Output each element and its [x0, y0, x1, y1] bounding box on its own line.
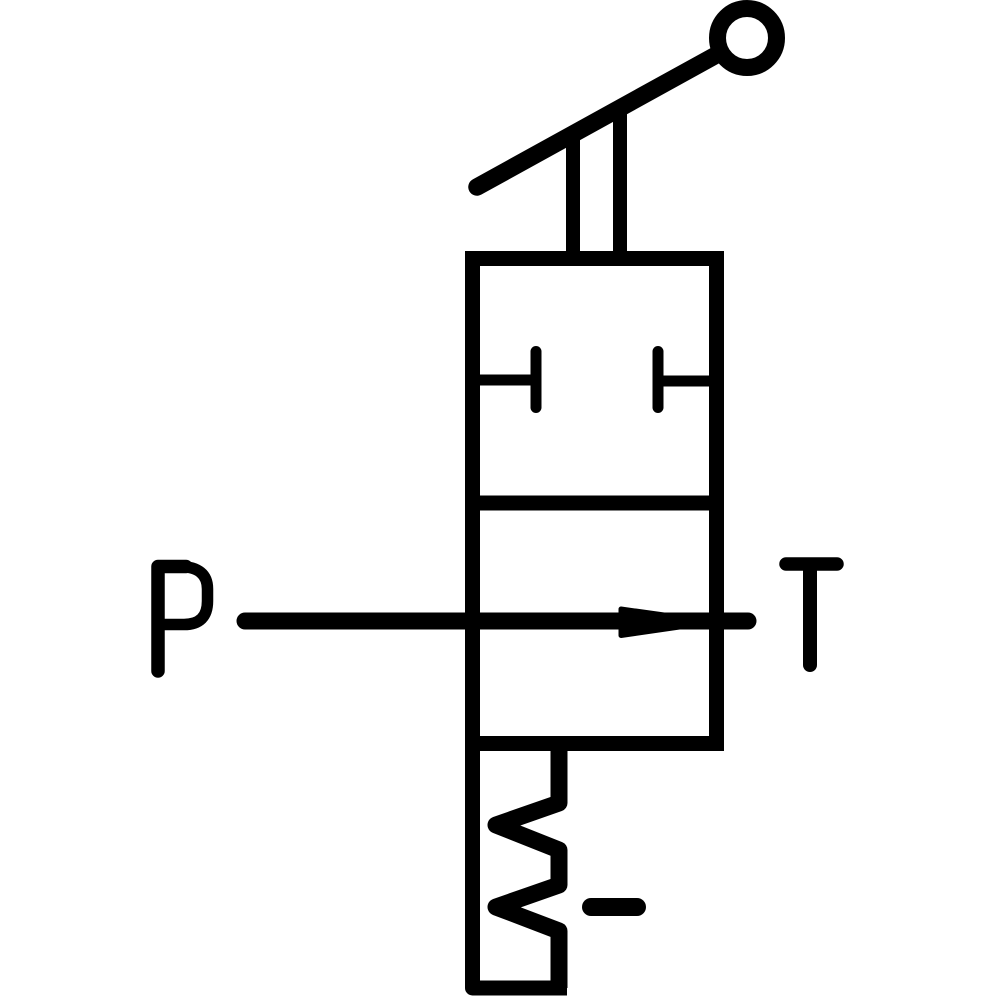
flow arrowhead	[621, 609, 714, 636]
valve body top edge	[465, 251, 724, 266]
valve body left wall (continues to spring frame)	[473, 251, 568, 988]
blocked port symbol left: end bar	[531, 352, 542, 408]
label P	[158, 567, 208, 672]
lever knob circle	[718, 9, 777, 68]
lever arm	[477, 54, 718, 187]
lever stem right	[613, 108, 627, 262]
blocked port symbol right: end bar	[653, 352, 664, 408]
spring zigzag	[496, 745, 559, 988]
lever stem left	[566, 134, 580, 262]
valve body bottom edge	[465, 736, 724, 751]
valve body middle divider	[465, 496, 724, 511]
flow line P to T	[245, 613, 748, 630]
valve body right wall	[709, 251, 724, 751]
spring dash mark	[591, 898, 637, 916]
blocked port symbol left: horizontal line	[473, 375, 531, 386]
blocked port symbol right: horizontal line	[661, 376, 716, 387]
label T	[786, 564, 837, 665]
